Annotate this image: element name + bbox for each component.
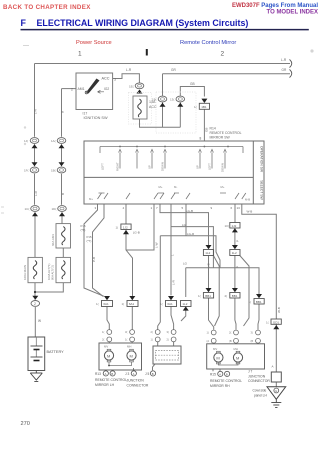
svg-text:ACC: ACC (102, 77, 110, 81)
motor MH LH (127, 351, 136, 360)
motor MV RH (214, 353, 223, 362)
svg-text:6A1: 6A1 (129, 302, 135, 306)
svg-text:MIRROR RH: MIRROR RH (210, 384, 230, 388)
svg-text:J 3: J 3 (125, 372, 129, 376)
svg-text:J 7: J 7 (248, 370, 252, 374)
svg-text:IG2: IG2 (104, 87, 109, 91)
wire RH chain B (234, 204, 236, 223)
svg-text:JUNCTION: JUNCTION (127, 379, 145, 383)
svg-text:DOWN: DOWN (160, 162, 164, 171)
svg-text:W-B: W-B (277, 307, 281, 313)
svg-text:A: A (105, 372, 107, 376)
svg-text:MV: MV (104, 345, 108, 349)
junction connector IL2a (203, 245, 213, 256)
connector oval 2 battery (31, 296, 40, 307)
RH mirror pin circles (211, 330, 260, 343)
svg-text:13(: 13( (170, 98, 174, 102)
svg-text:L-R: L-R (281, 58, 287, 62)
svg-text:4: 4 (123, 206, 125, 210)
divider mark (146, 49, 148, 56)
svg-text:1J2: 1J2 (123, 225, 128, 229)
connector oval row3 left (25, 206, 40, 217)
wire labels mid (81, 209, 282, 313)
svg-text:BATTERY: BATTERY (47, 350, 65, 354)
svg-text:1: 1 (78, 51, 82, 58)
ground battery (30, 371, 42, 382)
svg-text:R15: R15 (210, 373, 216, 377)
junction connector 6A1 a (96, 296, 113, 307)
junction connector GD1 (266, 319, 281, 329)
svg-text:P: P (236, 240, 240, 242)
ignition switch I17 (76, 73, 113, 110)
wire ACC fuse output (140, 119, 181, 127)
svg-text:R13: R13 (95, 372, 101, 376)
svg-text:3: 3 (95, 206, 97, 210)
svg-text:3(: 3( (251, 331, 253, 335)
svg-text:BACK TO CHAPTER INDEX: BACK TO CHAPTER INDEX (3, 4, 91, 11)
svg-text:B: B (226, 372, 228, 376)
svg-text:SELECT SW: SELECT SW (260, 180, 264, 200)
connector oval row2 left (24, 162, 39, 173)
svg-text:1: 1 (151, 206, 153, 210)
svg-text:L-R: L-R (34, 190, 38, 196)
fusible link MAIN (23, 257, 42, 282)
wire J3 stubs (134, 364, 156, 370)
pin circle labels (102, 330, 253, 343)
wire LH pins to box (109, 342, 132, 343)
ground triangle cowl side (253, 387, 286, 400)
svg-text:M: M (216, 356, 219, 361)
svg-text:(*6): (*6) (81, 228, 86, 232)
connector oval 1J left (24, 138, 39, 149)
svg-text:1(: 1( (160, 302, 163, 306)
svg-text:1D(: 1D( (52, 207, 57, 211)
faint margin dash (23, 45, 29, 47)
svg-text:1(: 1( (198, 294, 201, 298)
svg-text:(B: (B (229, 339, 232, 343)
svg-text:UP: UP (147, 165, 151, 169)
svg-text:RIGHT: RIGHT (115, 162, 119, 171)
svg-text:1C(: 1C( (25, 207, 30, 211)
svg-text:2(: 2( (151, 330, 153, 334)
wire rail GR from ignition ACC (113, 74, 140, 83)
wire J2L to 6A1b (126, 230, 133, 297)
svg-text:80A ALT(*2): 80A ALT(*2) (51, 265, 55, 280)
fuse 60A AM1 (51, 224, 71, 248)
svg-text:BB1: BB1 (256, 300, 262, 304)
wire IL2c tail (181, 311, 186, 322)
svg-text:1J(: 1J( (24, 139, 28, 143)
junction connector 6A1 c (160, 296, 177, 307)
svg-text:ELECTRICAL WIRING DIAGRAM (Sys: ELECTRICAL WIRING DIAGRAM (System Circui… (37, 18, 249, 28)
rail continuation braces (290, 60, 292, 78)
junction connector IL2c (181, 301, 192, 311)
LH mirror pin circles (107, 330, 135, 342)
label R14 block (210, 127, 242, 140)
connector oval row2 right (51, 162, 66, 173)
wire 6A1b to LH pin (131, 307, 133, 330)
wire stair H3 LG-R (185, 204, 187, 236)
svg-text:REMOTE CONTROL: REMOTE CONTROL (210, 379, 242, 383)
svg-text:M: M (130, 354, 133, 359)
junction connector IL2b (230, 245, 240, 256)
wire J3 pins to box (158, 342, 174, 346)
wire RH chain A (208, 256, 210, 289)
svg-text:F: F (21, 18, 27, 28)
wire W-B chain (242, 204, 276, 319)
svg-text:1J2: 1J2 (232, 224, 237, 228)
svg-text:GR: GR (282, 68, 287, 72)
wire stair H2 LG (170, 204, 172, 295)
wire battery feed W (34, 307, 36, 337)
svg-text:1(: 1( (116, 226, 119, 230)
switch internal labels (89, 162, 250, 201)
R13 label circles (95, 371, 127, 387)
svg-text:LG: LG (182, 223, 187, 227)
svg-text:A: A (133, 372, 135, 376)
mirror switch R14 box (84, 141, 264, 204)
wire RH pins to box (214, 342, 258, 345)
connector oval row3 right (52, 206, 67, 217)
svg-text:B: B (61, 193, 65, 195)
switch bottom pin labels (95, 206, 241, 210)
svg-text:13: 13 (237, 206, 241, 210)
svg-text:OPERATION SW: OPERATION SW (260, 146, 264, 173)
junction connector BB1 mid (198, 288, 214, 298)
svg-text:1(: 1( (151, 338, 153, 342)
svg-text:100A MAIN: 100A MAIN (23, 265, 27, 280)
connector oval A (152, 96, 167, 107)
svg-text:M+: M+ (159, 185, 163, 189)
junction connector J7 box (271, 372, 281, 382)
svg-text:DOWN: DOWN (220, 163, 224, 172)
motor MV LH (104, 351, 113, 360)
svg-text:B: B (111, 372, 113, 376)
wire J2L feed (125, 204, 127, 224)
svg-text:5: 5 (182, 206, 184, 210)
svg-text:Cowl side: Cowl side (253, 389, 267, 393)
junction connector J2 left (116, 224, 140, 235)
svg-text:1L2: 1L2 (182, 302, 187, 306)
junction connector 6A1 b (122, 296, 139, 307)
svg-text:MH: MH (234, 347, 238, 351)
junction connector J12 (225, 223, 241, 233)
title underline (21, 29, 309, 31)
wire pin1 to J2L corner (126, 204, 154, 250)
ground symbol bottom right (271, 399, 281, 407)
svg-text:1L2: 1L2 (232, 251, 237, 255)
svg-text:2(: 2( (102, 338, 104, 342)
svg-text:UP: UP (195, 165, 199, 169)
wire fuse AM1 to lower fuse (62, 248, 64, 257)
svg-text:LEFT: LEFT (207, 163, 211, 170)
J3 label circles (125, 371, 156, 388)
svg-text:P-B: P-B (92, 257, 96, 262)
svg-text:270: 270 (21, 421, 30, 427)
header back link (3, 4, 91, 11)
svg-text:1B1: 1B1 (201, 105, 207, 109)
svg-text:AM1: AM1 (78, 87, 85, 91)
svg-text:GD1: GD1 (273, 320, 280, 324)
wire fuses to battery node (34, 283, 36, 300)
svg-text:A: A (272, 365, 274, 369)
remote control mirror LH box (99, 343, 142, 370)
svg-text:2: 2 (71, 88, 73, 92)
svg-text:1F(: 1F( (24, 169, 29, 173)
svg-text:L-W: L-W (155, 242, 159, 248)
junction connector BB1 a (225, 288, 241, 298)
svg-text:(A: (A (207, 339, 210, 343)
svg-text:7: 7 (156, 206, 158, 210)
dotted region around fuse (129, 93, 152, 125)
wire GB down to switch pin 8 (203, 109, 205, 141)
wire LH chain 2 (93, 204, 105, 296)
J7 labels (248, 370, 270, 384)
wire left column B vertical (62, 88, 77, 90)
page title (21, 18, 249, 28)
svg-text:(*7): (*7) (87, 239, 92, 243)
wire oval A to GR rail (162, 74, 164, 96)
wire stair H1 LG-B (160, 204, 209, 245)
svg-text:1(: 1( (122, 302, 125, 306)
svg-text:BB1: BB1 (205, 294, 211, 298)
wire LH chain 1 (84, 204, 104, 296)
svg-text:CONNECTOR: CONNECTOR (127, 383, 149, 387)
svg-text:1(: 1( (96, 302, 99, 306)
svg-text:1L2: 1L2 (205, 251, 210, 255)
svg-text:EWD307F Pages From Manual: EWD307F Pages From Manual (232, 3, 318, 9)
svg-text:panel LH: panel LH (254, 393, 267, 397)
svg-text:IGNITION SW: IGNITION SW (84, 116, 108, 120)
header manual link (232, 3, 318, 16)
svg-text:R14: R14 (210, 127, 216, 131)
svg-text:1(: 1( (102, 330, 104, 334)
svg-text:1(: 1( (194, 105, 197, 109)
junction connector J3 box (153, 346, 181, 364)
svg-text:P: P (236, 266, 240, 268)
svg-text:M-B: M-B (245, 198, 250, 202)
connector oval 1A (51, 138, 66, 149)
wire rail L-R (35, 63, 291, 65)
svg-text:M: M (236, 356, 239, 361)
svg-text:REMOTE CONTROL: REMOTE CONTROL (210, 131, 242, 135)
R15 label circles (210, 371, 242, 388)
svg-text:LEFT: LEFT (101, 163, 105, 170)
svg-text:L-R: L-R (126, 68, 132, 72)
svg-text:M+: M+ (89, 197, 93, 201)
svg-text:2(: 2( (167, 338, 169, 342)
svg-text:MH: MH (127, 345, 131, 349)
motor MH RH (233, 353, 242, 362)
svg-text:JUNCTION: JUNCTION (248, 374, 266, 378)
svg-text:L-R: L-R (34, 108, 38, 114)
svg-text:MIRROR LH: MIRROR LH (95, 383, 115, 387)
dotted connector region ovals AB (156, 92, 196, 133)
wire 6A1c to J3 pin (171, 307, 174, 330)
svg-text:1(: 1( (125, 338, 127, 342)
svg-text:1(: 1( (207, 331, 209, 335)
svg-text:10(: 10( (225, 224, 229, 228)
junction connector BB1 b (249, 294, 265, 304)
svg-text:1(: 1( (249, 300, 252, 304)
svg-text:B: B (61, 111, 65, 113)
svg-text:BB1: BB1 (232, 294, 238, 298)
svg-text:19(: 19( (152, 98, 156, 102)
svg-text:I17: I17 (83, 112, 88, 116)
svg-text:(B: (B (251, 339, 254, 343)
svg-text:6A1: 6A1 (167, 302, 173, 306)
connector oval B (170, 96, 185, 107)
svg-text:1B(: 1B( (51, 169, 56, 173)
svg-text:2: 2 (221, 51, 225, 58)
svg-text:GB: GB (205, 128, 209, 132)
svg-text:3(: 3( (167, 330, 169, 334)
svg-text:L-R: L-R (172, 279, 176, 285)
wire 6A1a to LH pin (107, 307, 109, 330)
junction connector B1 (194, 99, 210, 110)
junction dot battery node (34, 291, 36, 293)
svg-text:2(: 2( (229, 331, 231, 335)
svg-text:LG-R: LG-R (187, 232, 195, 236)
svg-text:2: 2 (34, 302, 36, 306)
battery (28, 337, 64, 371)
svg-text:REMOTE CONTROL: REMOTE CONTROL (95, 378, 127, 382)
svg-text:TO MODEL INDEX: TO MODEL INDEX (267, 10, 318, 16)
svg-text:1A(: 1A( (51, 139, 56, 143)
svg-text:LG-B: LG-B (186, 209, 193, 213)
wire left column L-R vertical (34, 64, 36, 137)
wire R13 stubs (106, 369, 113, 372)
svg-text:3(: 3( (125, 330, 127, 334)
svg-text:MV: MV (213, 347, 217, 351)
svg-text:M-: M- (174, 185, 177, 189)
svg-text:1E(: 1E( (129, 84, 134, 88)
svg-text:A: A (219, 372, 221, 376)
J3 pin circles (155, 330, 176, 342)
svg-text:9: 9 (211, 206, 213, 210)
fusible link ALT (47, 257, 71, 282)
wire long vertical to J3 pin (158, 236, 161, 330)
svg-text:6: 6 (231, 206, 233, 210)
svg-text:B: B (152, 372, 154, 376)
svg-text:60A AM1: 60A AM1 (51, 234, 55, 246)
wire rail GR right portion (163, 73, 291, 75)
svg-text:M: M (107, 354, 110, 359)
svg-text:MIRROR SW: MIRROR SW (210, 136, 231, 140)
svg-text:6A1: 6A1 (103, 302, 109, 306)
switch internal contacts (98, 146, 246, 199)
wire LG horizontal H4 (186, 268, 259, 294)
svg-text:2(: 2( (225, 294, 228, 298)
svg-text:LG: LG (183, 262, 188, 266)
wire BB1b to RH pin (258, 304, 259, 330)
svg-text:W-B: W-B (247, 210, 253, 214)
svg-text:M+: M+ (221, 185, 225, 189)
svg-text:1(: 1( (266, 320, 269, 324)
wire R15 stubs (213, 369, 220, 371)
remote control mirror RH box (207, 344, 265, 369)
wire oval B to GB link (180, 87, 204, 97)
svg-text:LG-B: LG-B (133, 231, 140, 235)
svg-text:J 5: J 5 (145, 372, 149, 376)
svg-text:3: 3 (114, 77, 116, 81)
svg-text:W: W (38, 319, 41, 323)
faint margin dots (24, 126, 26, 128)
svg-text:Power Source: Power Source (76, 40, 112, 46)
svg-text:G: G (275, 389, 277, 393)
svg-text:CONNECTOR: CONNECTOR (248, 379, 270, 383)
svg-text:L-B: L-B (207, 263, 211, 268)
svg-text:GB: GB (190, 82, 195, 86)
svg-text:GR: GR (171, 68, 176, 72)
svg-text:8: 8 (200, 137, 202, 141)
fuse 15A ACC (129, 83, 157, 119)
svg-text:Remote Control Mirror: Remote Control Mirror (180, 40, 236, 46)
